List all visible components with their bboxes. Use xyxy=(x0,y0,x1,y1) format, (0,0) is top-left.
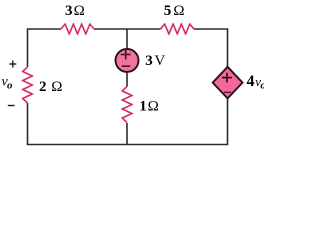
svg-text:1: 1 xyxy=(139,98,147,114)
svg-text:4: 4 xyxy=(247,73,255,90)
resistor 1Ω (middle branch, vertical zigzag) xyxy=(122,87,132,123)
svg-text:3: 3 xyxy=(65,3,73,19)
svg-text:Ω: Ω xyxy=(173,3,184,19)
wire: middle branch drop from top node to 3V source xyxy=(126,29,128,50)
polarity − for vo xyxy=(8,105,15,107)
svg-text:3: 3 xyxy=(145,53,153,69)
resistor 3Ω (top left, horizontal zigzag) xyxy=(61,24,94,34)
+ terminal inside 3V source xyxy=(121,50,131,60)
wire: top middle segment between 3Ω and 5Ω xyxy=(94,28,161,30)
svg-text:Ω: Ω xyxy=(51,79,62,95)
polarity + for vo xyxy=(9,61,16,68)
resistor 5Ω (top right, horizontal zigzag) xyxy=(161,24,195,34)
svg-text:2: 2 xyxy=(39,79,47,95)
svg-text:Ω: Ω xyxy=(74,3,85,19)
wire: 3Ω left lead through top-left corner down to 2Ω resistor top xyxy=(28,29,62,67)
− terminal inside 3V source xyxy=(122,65,131,67)
svg-text:o: o xyxy=(7,79,13,91)
svg-text:5: 5 xyxy=(164,3,172,19)
svg-text:o: o xyxy=(260,79,264,91)
independent voltage source 3V (circle) xyxy=(116,49,139,72)
svg-text:V: V xyxy=(154,53,165,69)
wire: 5Ω right lead through top-right corner down to dependent source top xyxy=(194,29,228,67)
svg-text:Ω: Ω xyxy=(148,98,159,114)
resistor 2Ω (left branch, vertical zigzag) xyxy=(23,67,33,103)
dependent voltage source 4vo (diamond) xyxy=(213,67,243,99)
wire: dependent source bottom, bottom rail, up to 2Ω resistor bottom xyxy=(28,98,228,145)
wire: 1Ω resistor bottom to bottom rail xyxy=(126,123,128,145)
+ terminal inside dependent source xyxy=(222,73,232,83)
wire: 3V source bottom to 1Ω resistor top xyxy=(126,72,128,87)
− terminal inside dependent source xyxy=(224,91,231,93)
